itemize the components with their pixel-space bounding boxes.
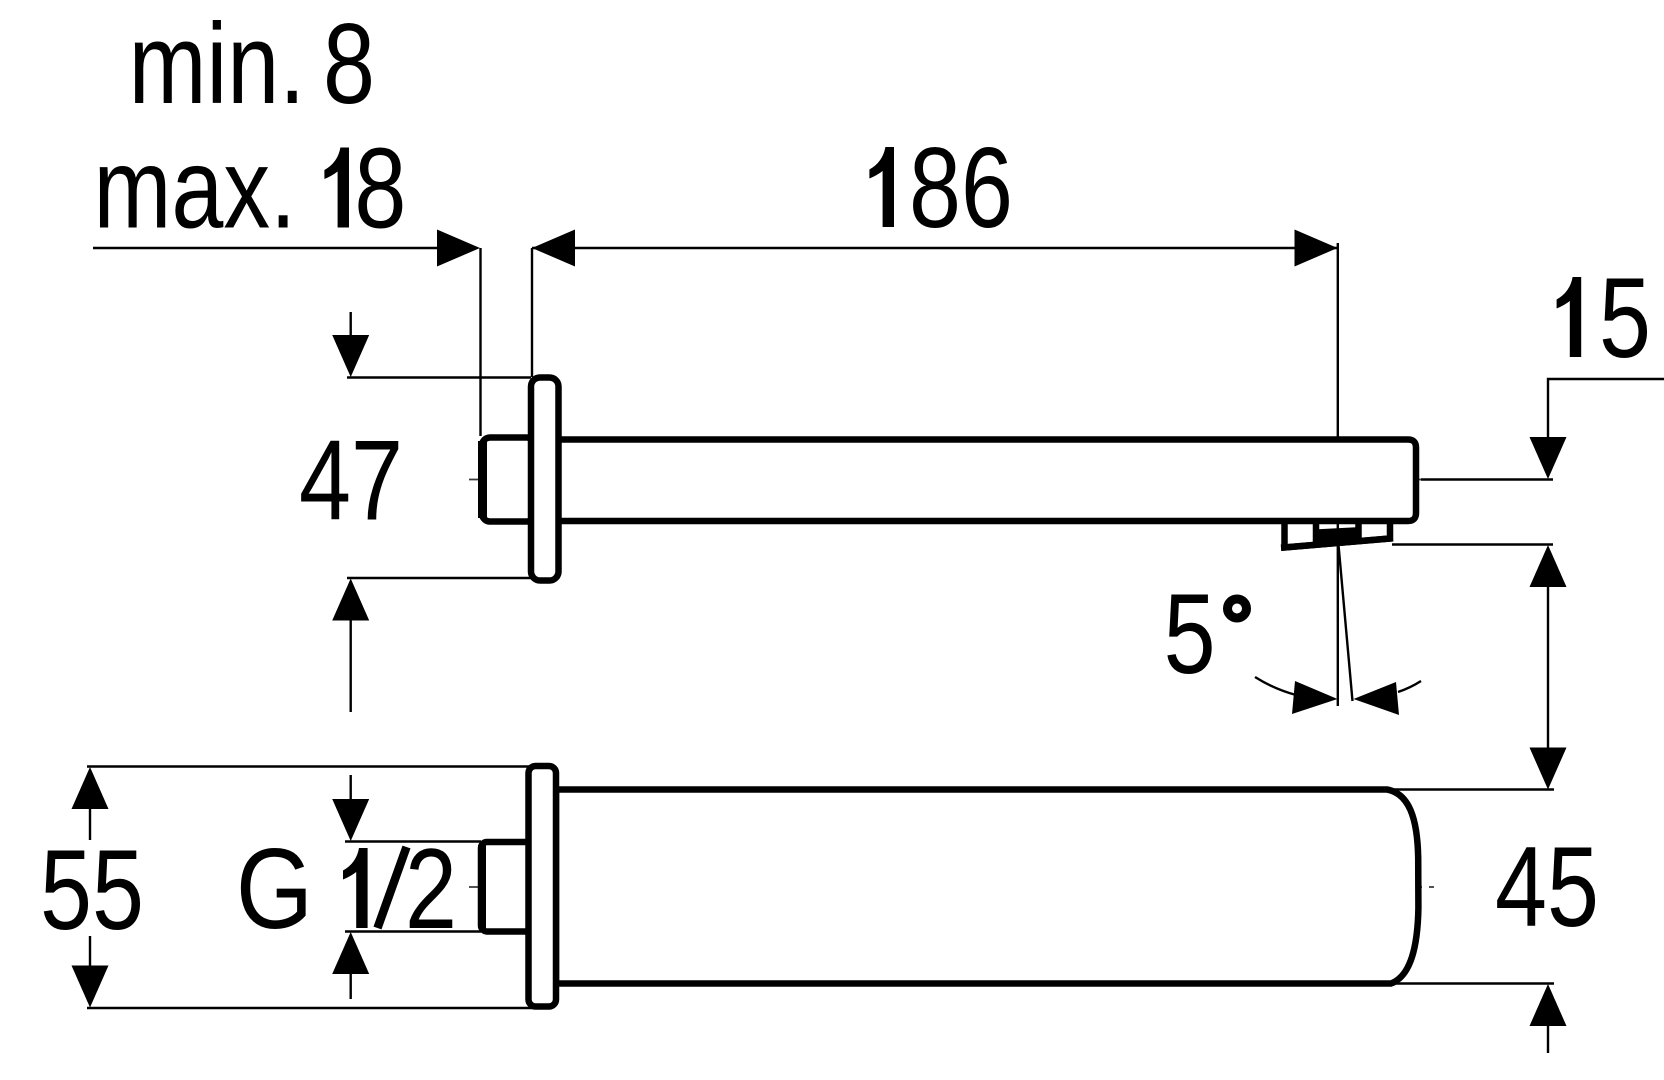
extension line thread top [345, 840, 481, 842]
label max. 18 [94, 126, 297, 253]
svg-text:5: 5 [1599, 255, 1651, 382]
arrowhead 55 up [72, 767, 109, 809]
arrowhead 47 top [332, 335, 369, 377]
spout tube plan view [556, 790, 1418, 984]
label 45 [1495, 824, 1599, 951]
leader line 15 top [1548, 379, 1664, 437]
centerline extension right side view [1421, 478, 1553, 480]
extension line wall far face [531, 248, 533, 377]
tail 55 top arrow [89, 809, 91, 840]
arrowhead 45 top down [1530, 748, 1567, 790]
tail 47 bottom arrow [350, 620, 352, 712]
extension line flange bottom [347, 577, 531, 579]
svg-text:5: 5 [1164, 571, 1216, 698]
extension line aerator bottom [1392, 543, 1553, 545]
centerline spout plan view [469, 886, 1434, 888]
extension line plan tube bottom [1392, 982, 1554, 984]
label 55 [40, 827, 144, 954]
arrowhead 47 bottom [332, 579, 369, 621]
arrowhead G12 down [332, 799, 369, 841]
centerline spout side view [469, 479, 1421, 481]
arrowhead 186 right [1295, 230, 1338, 267]
label 47 [299, 418, 403, 545]
arc 5deg right [1398, 681, 1421, 692]
tail 47 top arrow [350, 312, 352, 336]
label 5deg [1164, 571, 1216, 698]
extension line thread bottom [345, 930, 481, 932]
arrowhead 55 down [72, 966, 109, 1008]
svg-text:55: 55 [40, 827, 144, 954]
svg-text:8: 8 [323, 1, 375, 128]
extension line plan tube top [1387, 788, 1554, 790]
label min. 8 [129, 1, 306, 128]
arc 5deg left [1255, 677, 1296, 695]
extension line flange top [347, 376, 531, 378]
extension line wall near face [479, 248, 481, 436]
svg-text:8: 8 [354, 126, 406, 253]
dimension line 186 [532, 247, 1337, 249]
extension line spout outlet axis [1337, 243, 1339, 706]
arrowhead 15 down [1530, 437, 1567, 479]
arrowhead min8/max18 right [437, 230, 480, 267]
tail 55 bottom arrow [89, 936, 91, 966]
svg-text:86: 86 [909, 125, 1013, 252]
aerator outlet [1281, 523, 1393, 548]
svg-text:47: 47 [299, 418, 403, 545]
arrowhead G12 up [332, 932, 369, 974]
degree ring [1228, 599, 1247, 618]
wall flange plan view [529, 766, 557, 1007]
thread nipple plan view [481, 842, 532, 932]
spout tube side view [558, 440, 1416, 522]
label G 1/2 [236, 825, 313, 953]
arrowhead 15 up [1530, 545, 1567, 587]
arrowhead 186 left [532, 230, 575, 267]
tail G12 bottom arrow [350, 973, 352, 999]
thread nipple side view [482, 438, 535, 522]
svg-text:G: G [236, 825, 313, 953]
svg-text:45: 45 [1495, 824, 1599, 951]
label 15 [1557, 277, 1582, 357]
dimension line min8/max18 [93, 247, 445, 249]
tail G12 top arrow [350, 775, 352, 800]
wall flange side view [531, 378, 559, 581]
angle line 5deg slanted [1339, 545, 1353, 701]
fraction slash [378, 847, 407, 928]
tail 45 bottom arrow [1547, 1025, 1549, 1053]
svg-text:min.: min. [129, 1, 306, 128]
extension line bottom flange top [87, 765, 535, 767]
arrowhead 5deg right [1354, 682, 1400, 715]
svg-text:max.: max. [94, 126, 297, 253]
arrowhead 45 bottom up [1530, 984, 1567, 1026]
extension line bottom flange bottom [87, 1007, 535, 1009]
arrowhead 5deg left [1292, 681, 1338, 714]
label 186 [869, 147, 894, 227]
shared tail line right dimensions [1547, 587, 1549, 748]
svg-text:2: 2 [405, 826, 457, 953]
